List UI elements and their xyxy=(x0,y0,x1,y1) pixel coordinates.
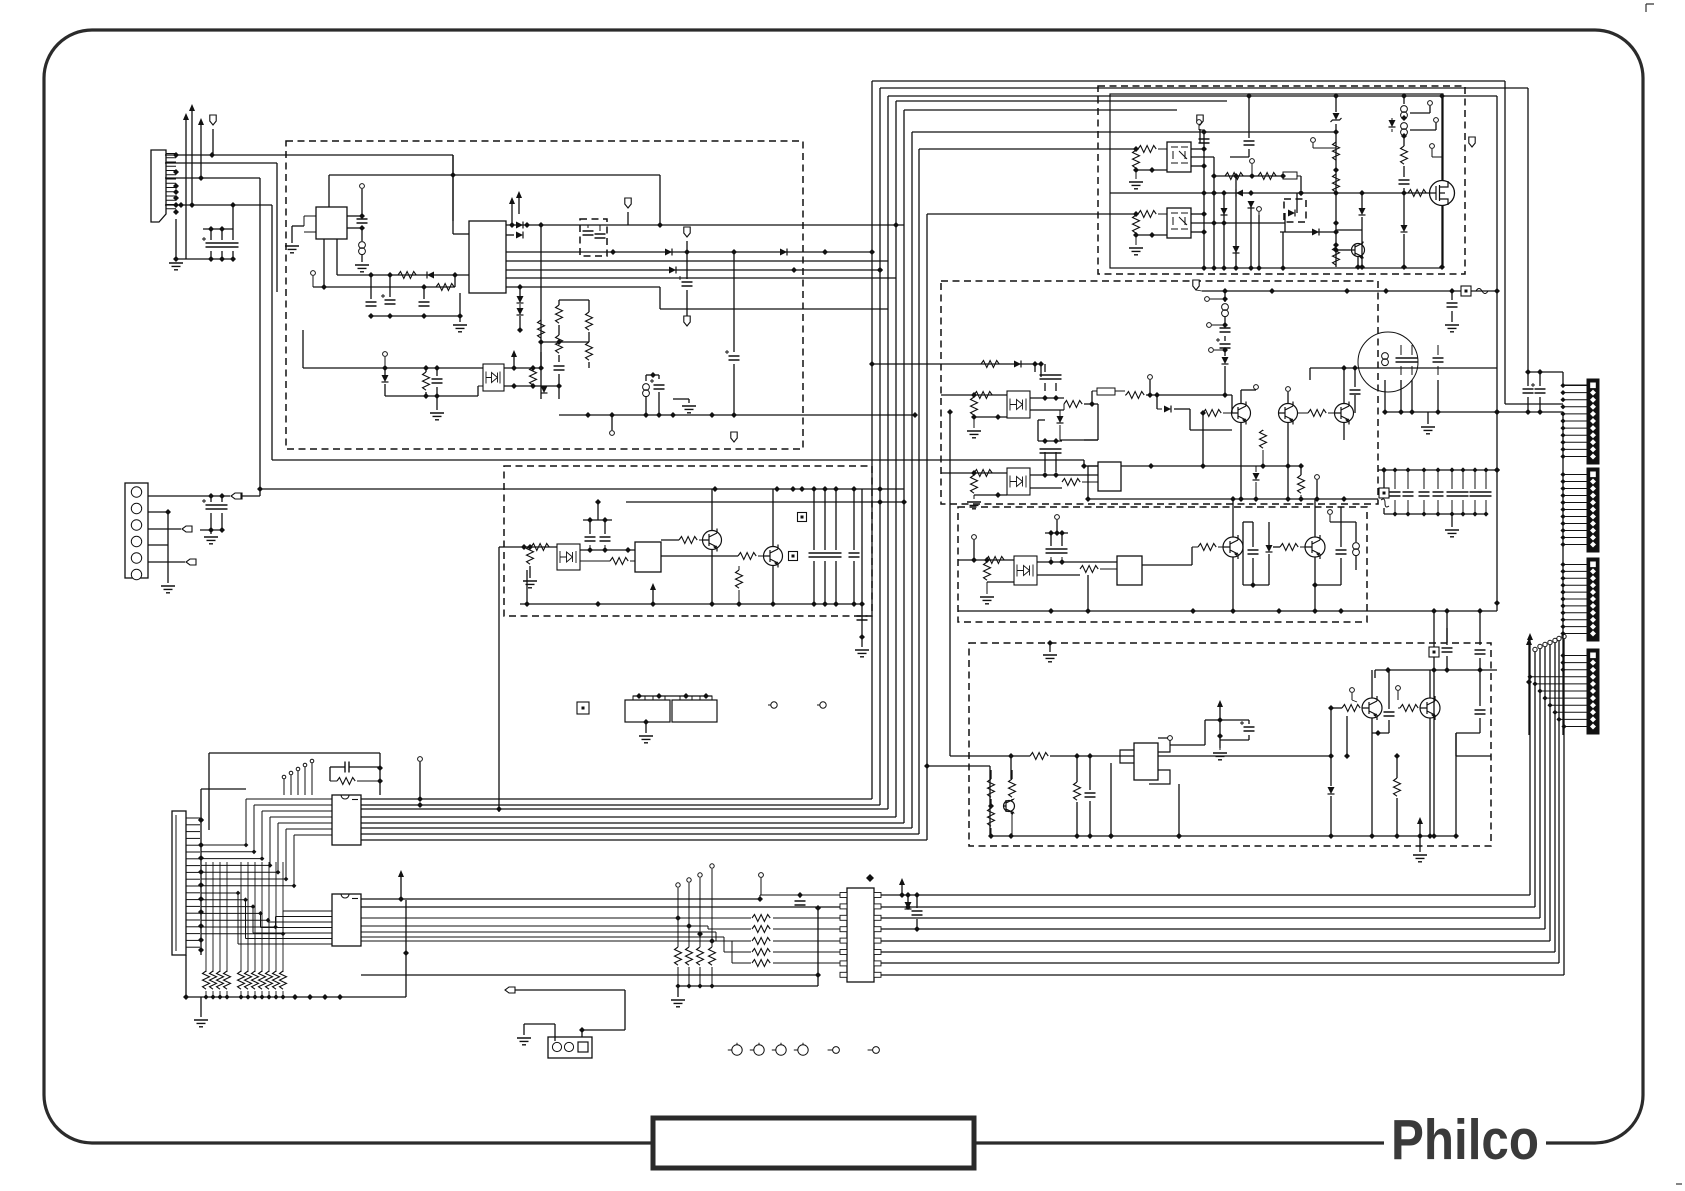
wire xyxy=(524,1023,555,1025)
resistor xyxy=(610,558,628,565)
wire xyxy=(1419,707,1421,709)
junction xyxy=(1560,404,1565,409)
junction xyxy=(1560,493,1565,498)
fan wire xyxy=(245,900,247,939)
bus wire xyxy=(715,932,717,941)
junction xyxy=(1560,433,1565,438)
crop mark bottom-right xyxy=(1676,1183,1682,1185)
fan wire xyxy=(246,938,333,940)
capacitor xyxy=(795,901,806,905)
junction xyxy=(245,994,250,999)
wire xyxy=(974,416,1007,418)
resistor xyxy=(1080,566,1098,573)
gnd bus xyxy=(678,985,818,987)
resistor xyxy=(1138,211,1156,218)
junction xyxy=(1483,511,1488,516)
junction xyxy=(403,950,409,956)
strip feed xyxy=(1563,456,1587,458)
supply stub xyxy=(513,357,515,368)
fan wire xyxy=(201,885,294,887)
stub xyxy=(1196,290,1202,291)
resistor xyxy=(1333,247,1340,265)
pin xyxy=(1396,686,1401,691)
U6 outline wires xyxy=(1120,738,1170,784)
wire bus4 run xyxy=(272,459,1084,461)
connector CN6 xyxy=(1587,468,1599,552)
junction xyxy=(208,493,214,499)
U9 pin xyxy=(874,938,881,943)
wire xyxy=(799,895,801,898)
junction xyxy=(377,765,383,771)
junction xyxy=(1298,463,1304,469)
resistor xyxy=(238,971,245,989)
wire xyxy=(1282,232,1284,268)
wire xyxy=(633,695,712,697)
junction xyxy=(1556,717,1561,722)
wire xyxy=(1050,557,1052,562)
junction xyxy=(198,175,204,181)
wire xyxy=(1300,546,1305,548)
resistor xyxy=(531,544,549,551)
junction xyxy=(1211,190,1217,196)
junction xyxy=(210,994,215,999)
bus wire xyxy=(881,894,1530,896)
junction xyxy=(1280,265,1286,271)
junction xyxy=(1246,93,1252,99)
service jumper xyxy=(577,702,589,714)
junction xyxy=(1190,608,1196,614)
wire xyxy=(210,251,212,259)
wire xyxy=(711,550,713,604)
column xyxy=(1213,157,1215,267)
junction xyxy=(1431,608,1437,614)
fan feed xyxy=(1530,676,1587,678)
resistor xyxy=(988,808,995,826)
resistor xyxy=(738,553,756,560)
capacitor xyxy=(1199,139,1210,143)
junction xyxy=(1008,833,1014,839)
bus wire xyxy=(361,827,912,829)
CN4 pin sq xyxy=(578,1042,588,1052)
junction xyxy=(1359,190,1365,196)
net flag xyxy=(232,493,242,499)
capacitor xyxy=(206,243,217,247)
wire xyxy=(261,991,263,997)
wire xyxy=(853,561,855,604)
junction xyxy=(219,256,225,262)
fan wire xyxy=(201,906,253,908)
supply arrow xyxy=(1527,633,1533,640)
wire xyxy=(148,561,185,563)
junction xyxy=(1238,496,1244,502)
junction xyxy=(173,189,179,195)
junction xyxy=(1477,608,1483,614)
pin xyxy=(1428,101,1433,106)
bus H8 xyxy=(888,95,1497,97)
junction xyxy=(1047,640,1053,646)
junction xyxy=(1355,264,1361,270)
jumper block 2 xyxy=(672,700,717,722)
fan wire xyxy=(201,899,246,901)
junction xyxy=(731,412,737,418)
U9 pin xyxy=(840,961,847,966)
diode xyxy=(905,902,912,909)
wire xyxy=(1040,364,1042,377)
CN1 pin xyxy=(166,204,176,206)
wire xyxy=(1479,718,1481,733)
junction xyxy=(1133,146,1139,152)
IC U2 SMPS xyxy=(469,221,506,293)
junction xyxy=(1560,411,1565,416)
junction xyxy=(1392,467,1397,472)
junction xyxy=(189,202,195,208)
wire xyxy=(835,561,837,604)
wire xyxy=(361,906,840,908)
pin xyxy=(296,767,300,771)
pin xyxy=(687,878,691,882)
U1 pin xyxy=(304,215,316,217)
wire xyxy=(1315,584,1341,586)
CN1 pin xyxy=(166,191,176,193)
junction xyxy=(452,272,458,278)
junction xyxy=(811,601,817,607)
diode xyxy=(1057,416,1064,423)
junction xyxy=(1560,514,1565,519)
resistor xyxy=(984,562,991,580)
alignment point xyxy=(833,1047,840,1054)
resistor xyxy=(273,971,280,989)
supply stub xyxy=(511,204,513,225)
junction xyxy=(321,284,327,290)
wire xyxy=(1343,423,1345,440)
gnd bus xyxy=(186,996,406,998)
supply arrow xyxy=(189,104,195,111)
junction xyxy=(643,412,649,418)
junction xyxy=(219,226,225,232)
junction xyxy=(198,842,204,848)
resistor xyxy=(1074,782,1081,800)
ground xyxy=(980,597,994,604)
bus wire xyxy=(361,936,724,938)
junction xyxy=(1560,624,1565,629)
capacitor xyxy=(1390,492,1401,496)
capacitor xyxy=(228,243,239,247)
fan wire xyxy=(275,917,277,928)
junction xyxy=(877,499,883,505)
junction xyxy=(359,225,365,231)
junction xyxy=(252,849,257,854)
wire xyxy=(1474,470,1476,489)
bus rise xyxy=(1534,652,1536,907)
wire xyxy=(626,501,904,503)
wire xyxy=(861,489,863,604)
IC U3 xyxy=(635,542,661,572)
wire xyxy=(1335,96,1337,112)
bus rise xyxy=(1539,649,1541,918)
junction xyxy=(259,994,264,999)
x xyxy=(914,149,916,415)
wire xyxy=(1252,558,1254,585)
wire xyxy=(1044,441,1046,443)
wire xyxy=(973,417,975,428)
junction xyxy=(595,499,601,505)
diode xyxy=(516,222,523,229)
wire xyxy=(200,997,202,1017)
junction xyxy=(697,983,702,988)
wire xyxy=(554,1024,556,1041)
wire xyxy=(1383,508,1385,514)
wire xyxy=(328,175,330,207)
junction xyxy=(1435,467,1440,472)
wire xyxy=(872,363,1041,365)
wire xyxy=(210,530,212,534)
fan wire xyxy=(253,932,332,934)
junction xyxy=(1560,528,1565,533)
capacitor xyxy=(1481,492,1492,496)
junction xyxy=(1333,247,1339,253)
junction xyxy=(251,904,256,909)
wire xyxy=(1330,796,1332,836)
ground xyxy=(967,502,981,509)
junction xyxy=(538,365,544,371)
wire xyxy=(677,986,679,997)
junction xyxy=(988,833,994,839)
wire xyxy=(1446,611,1448,645)
U9 pin xyxy=(874,927,881,932)
wire xyxy=(1429,670,1431,698)
junction xyxy=(1074,753,1080,759)
capacitor xyxy=(1523,389,1534,393)
wire xyxy=(974,494,1007,496)
bus rise xyxy=(1529,640,1531,895)
wire xyxy=(1218,546,1223,548)
wire xyxy=(1343,368,1345,403)
pin xyxy=(289,771,293,775)
junction xyxy=(1042,472,1048,478)
wire xyxy=(1479,611,1481,645)
U1 pin xyxy=(304,231,316,233)
wire xyxy=(1354,395,1356,413)
fan wire xyxy=(276,916,333,918)
pin xyxy=(972,535,977,540)
junction xyxy=(322,994,328,1000)
fan wire xyxy=(283,910,332,912)
wire xyxy=(1539,397,1541,412)
wire xyxy=(210,513,212,530)
junction xyxy=(1444,608,1450,614)
wire xyxy=(1230,156,1249,158)
wire xyxy=(1451,500,1453,514)
fan wire xyxy=(261,927,333,929)
wire xyxy=(1400,366,1402,375)
wire xyxy=(370,275,372,299)
right trunk xyxy=(1562,412,1564,735)
wire xyxy=(1528,645,1530,682)
ground xyxy=(682,406,696,413)
wire xyxy=(504,385,559,387)
x xyxy=(799,907,801,909)
wire xyxy=(349,766,380,768)
fan wire xyxy=(277,823,279,872)
wire xyxy=(1394,500,1396,514)
junction xyxy=(173,195,179,201)
wire xyxy=(1528,371,1563,373)
pin xyxy=(418,757,423,762)
wire xyxy=(658,392,660,415)
strip feed xyxy=(1563,612,1587,614)
stub xyxy=(1431,149,1433,157)
junction xyxy=(1560,426,1565,431)
wire xyxy=(1394,470,1396,489)
wire xyxy=(201,788,246,790)
wire xyxy=(226,991,228,997)
junction xyxy=(198,882,204,888)
resistor xyxy=(1064,401,1082,408)
junction xyxy=(1439,93,1445,99)
net flag xyxy=(684,227,690,237)
strip feed xyxy=(1563,441,1587,443)
strip feed xyxy=(1563,655,1587,657)
bus V5 xyxy=(926,214,928,840)
wire xyxy=(1231,395,1233,413)
junction xyxy=(587,547,593,553)
fan wire xyxy=(201,858,262,860)
junction xyxy=(595,601,601,607)
junction xyxy=(1008,753,1014,759)
junction xyxy=(198,817,204,823)
capacitor xyxy=(1220,344,1231,348)
junction xyxy=(198,923,204,929)
wire row2 xyxy=(1214,175,1283,177)
wire xyxy=(1268,522,1270,545)
inductor L1 xyxy=(359,242,366,249)
wire xyxy=(1527,88,1529,372)
pullup wire xyxy=(254,862,256,972)
connector CN4 xyxy=(548,1037,592,1058)
wire xyxy=(459,293,461,316)
junction xyxy=(219,527,225,533)
junction xyxy=(625,547,631,553)
strip feed xyxy=(1563,577,1587,579)
junction xyxy=(1233,173,1239,179)
stub xyxy=(1312,143,1314,148)
bus rise xyxy=(1554,643,1556,952)
resistor xyxy=(245,971,252,989)
bus H3 xyxy=(912,131,1336,133)
wire xyxy=(1429,106,1431,113)
wire xyxy=(558,300,560,305)
pullup wire xyxy=(268,862,270,972)
junction xyxy=(1560,610,1565,615)
wire gate row xyxy=(1110,192,1430,194)
junction xyxy=(1381,467,1387,473)
diode xyxy=(517,296,524,303)
wire xyxy=(1411,366,1413,375)
wire xyxy=(1030,397,1064,399)
bus wire xyxy=(361,833,919,835)
junction xyxy=(1148,463,1154,469)
wire xyxy=(1371,670,1373,698)
pullup wire xyxy=(240,862,242,972)
wire xyxy=(454,275,456,287)
wire cap drop xyxy=(824,489,826,550)
wire xyxy=(423,287,425,299)
junction xyxy=(1328,705,1334,711)
diode xyxy=(1312,229,1319,236)
stub xyxy=(297,771,299,795)
CN2 pin xyxy=(131,569,141,579)
resistor xyxy=(423,372,430,390)
junction xyxy=(1038,361,1044,367)
junction xyxy=(1525,409,1531,415)
junction xyxy=(1537,688,1542,693)
bus wire xyxy=(361,798,872,800)
wire xyxy=(558,374,560,399)
wire xyxy=(1314,557,1316,611)
wire xyxy=(1224,366,1226,395)
wire xyxy=(1202,413,1204,466)
CN2 pin xyxy=(131,503,141,513)
wire xyxy=(148,544,168,546)
wire xyxy=(419,762,421,799)
resistor xyxy=(1342,705,1360,712)
x xyxy=(1063,403,1065,405)
capacitor xyxy=(857,616,868,620)
capacitor xyxy=(366,302,377,306)
wire xyxy=(519,316,521,330)
wire xyxy=(580,549,635,551)
wire bus1 xyxy=(165,154,453,156)
wire xyxy=(1411,345,1413,355)
junction xyxy=(790,486,796,492)
junction xyxy=(208,226,214,232)
fan wire xyxy=(278,822,332,824)
junction xyxy=(273,925,278,930)
pin xyxy=(282,775,286,779)
junction xyxy=(899,892,905,898)
wire xyxy=(405,900,407,997)
wire out1 xyxy=(506,224,904,226)
wire xyxy=(580,560,610,562)
resistor xyxy=(538,320,545,338)
junction xyxy=(1435,409,1441,415)
title block xyxy=(653,1118,974,1168)
wire xyxy=(824,561,826,604)
wire xyxy=(1049,643,1051,652)
junction xyxy=(1460,511,1465,516)
dashed block power supply xyxy=(286,141,803,449)
transistor Q1 xyxy=(703,531,722,550)
junction xyxy=(236,891,241,896)
wire xyxy=(323,239,325,287)
wire xyxy=(1243,584,1269,586)
junction xyxy=(1201,190,1207,196)
wire xyxy=(384,384,386,396)
thermistor xyxy=(1381,499,1389,507)
wire xyxy=(1063,404,1065,410)
junction xyxy=(851,486,857,492)
resistor xyxy=(1126,392,1144,399)
junction xyxy=(1054,530,1060,536)
optocoupler PC2 xyxy=(557,544,580,570)
capacitor xyxy=(432,379,443,383)
pin xyxy=(698,873,702,877)
CN3 pin xyxy=(186,905,200,907)
pin xyxy=(1055,515,1060,520)
resistor xyxy=(530,367,537,385)
wire xyxy=(733,252,735,352)
fan wire xyxy=(254,804,332,806)
